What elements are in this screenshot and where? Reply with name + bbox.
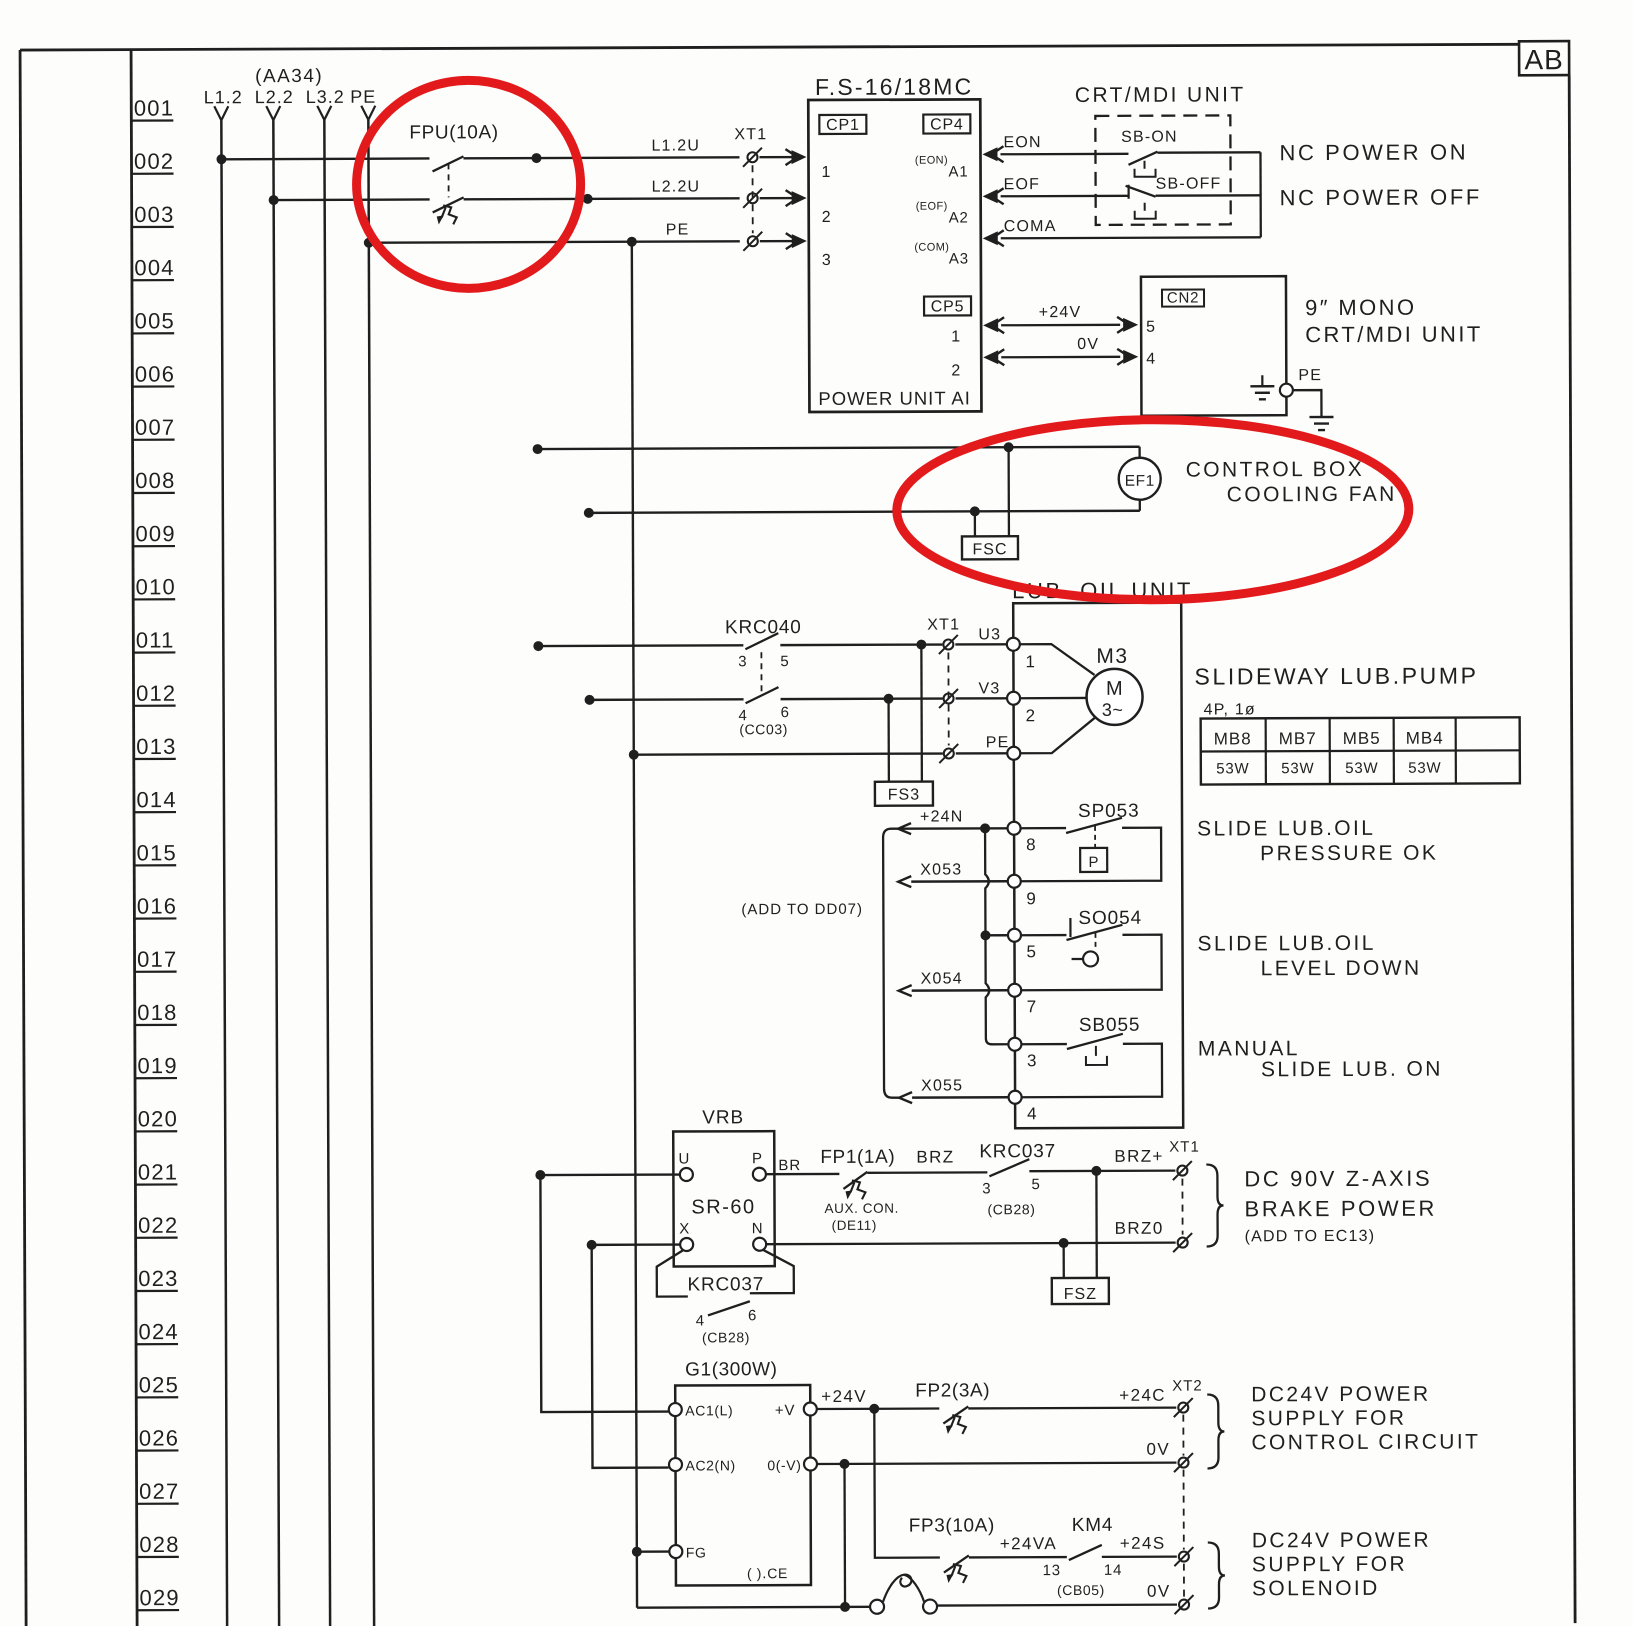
pressure switch P box [1080,848,1107,872]
svg-text:U: U [678,1150,690,1167]
svg-text:KRC040: KRC040 [725,617,802,638]
contact KM4 13-14 blade [1069,1545,1102,1560]
svg-text:3~: 3~ [1102,700,1124,720]
G1 terminal FG [669,1545,682,1558]
pressure switch SP053 dashed stem [1094,826,1096,848]
svg-text:SUPPLY FOR: SUPPLY FOR [1251,1407,1406,1431]
contact KRC037 3-5 blade (brake) [989,1159,1029,1176]
svg-text:1: 1 [822,164,832,181]
svg-text:0V: 0V [1146,1440,1170,1459]
svg-text:XT1: XT1 [734,126,767,143]
terminal XT2 0V solenoid [1179,1600,1189,1610]
svg-text:CP5: CP5 [931,298,965,315]
svg-text:(COM): (COM) [914,241,949,253]
svg-text:0V: 0V [1147,1582,1171,1601]
svg-text:SLIDEWAY LUB.PUMP: SLIDEWAY LUB.PUMP [1194,662,1478,689]
svg-text:003: 003 [134,202,174,227]
power supply G1 box [675,1385,811,1586]
svg-text:+V: +V [775,1402,795,1419]
svg-text:4: 4 [696,1312,705,1329]
terminal XT1 BRZ+ [1177,1166,1187,1176]
svg-text:BRZ0: BRZ0 [1115,1219,1164,1238]
pushbutton SB055 blade [1067,1034,1123,1049]
svg-text:028: 028 [139,1532,179,1557]
pump table box [1201,717,1520,784]
svg-text:3: 3 [1027,1051,1038,1070]
wire +24V branch down to FP3 [874,1409,940,1558]
svg-text:015: 015 [137,840,177,865]
svg-text:MANUAL: MANUAL [1198,1037,1300,1060]
fuse FS3 stub 1 [920,645,923,782]
svg-text:+24V: +24V [1039,304,1082,321]
svg-text:029: 029 [139,1585,179,1610]
svg-text:+24N: +24N [920,808,964,825]
terminal XT2 0V [1178,1458,1188,1468]
svg-text:(ADD TO EC13): (ADD TO EC13) [1245,1228,1376,1246]
svg-text:M: M [1106,678,1123,700]
wire row012 V3 left [590,698,744,701]
pressure switch SP053 blade [1066,818,1122,833]
svg-text:MB8: MB8 [1214,729,1252,748]
svg-text:2: 2 [822,209,832,226]
svg-text:(AA34): (AA34) [255,66,323,87]
svg-text:G1(300W): G1(300W) [685,1359,778,1380]
svg-text:017: 017 [137,947,177,972]
svg-text:SB055: SB055 [1079,1015,1141,1036]
svg-text:1: 1 [1025,652,1036,671]
svg-text:009: 009 [135,521,175,546]
svg-text:FSC: FSC [972,541,1007,558]
svg-text:AC2(N): AC2(N) [685,1457,735,1473]
page border top [20,44,1519,50]
svg-text:5: 5 [1026,942,1037,961]
svg-text:6: 6 [748,1307,757,1324]
brace solenoid [1208,1542,1225,1608]
svg-text:KM4: KM4 [1072,1515,1114,1536]
wire SO054 to loop right [1020,935,1161,991]
svg-text:DC24V POWER: DC24V POWER [1252,1529,1431,1553]
svg-text:(CC03): (CC03) [739,721,788,737]
noise filter bead [870,1600,884,1614]
wire X053 [898,876,911,887]
terminal XT1 dashed link (lub) [947,652,949,745]
fuse FS3 box [875,782,933,806]
terminal XT2 dashed link [1182,1415,1184,1456]
svg-text:014: 014 [136,787,176,812]
svg-text:L2.2U: L2.2U [652,178,701,195]
svg-text:SB-ON: SB-ON [1121,129,1178,146]
svg-text:004: 004 [134,255,174,280]
svg-text:024: 024 [138,1319,178,1344]
connector CP5 box [924,296,971,315]
wire bead to XT2 0V [937,1603,1177,1606]
svg-text:CRT/MDI UNIT: CRT/MDI UNIT [1305,321,1483,347]
svg-text:5: 5 [1146,319,1156,336]
fuse FP2 symbol [943,1406,968,1423]
wire pin5 to SO054 [1020,934,1066,936]
svg-text:001: 001 [134,95,174,120]
svg-text:012: 012 [136,681,176,706]
wire XT1 to lub PE pin [956,752,1008,755]
junction vertical with hops (+24N to pin3 wire) [985,828,1009,1044]
red circle highlight around FPU [356,80,581,289]
svg-text:026: 026 [139,1425,179,1450]
wire PE to chassis ground [1293,390,1321,417]
terminal XT1 PE [748,236,758,246]
breaker FPU trip symbol [442,207,446,217]
svg-text:X: X [679,1220,690,1237]
terminal XT1 dashed link [752,165,754,233]
wire L1 from bus to FPU [221,157,429,160]
svg-text:9″ MONO: 9″ MONO [1305,295,1416,320]
level switch SO054 dashed stem [1094,933,1096,950]
wire FP3 to KM4 [969,1556,1067,1559]
wire 0V branch vertical [843,1464,846,1607]
connector CP4 box [923,114,970,133]
svg-text:MB4: MB4 [1406,729,1444,748]
svg-text:+24S: +24S [1120,1534,1166,1553]
wire X055 [899,1092,912,1103]
fan EF1 leads [1138,447,1140,459]
ground symbol at CN2 PE [1261,375,1263,386]
lub pin 5 circle [1008,929,1021,942]
wire COMA from CP4 [983,231,998,245]
terminal XT1 U3 [943,639,953,649]
lub pin 2 circle [1007,692,1020,705]
svg-text:EON: EON [1003,134,1041,151]
svg-text:011: 011 [136,627,175,652]
svg-text:L1.2: L1.2 [204,87,243,107]
lub pin 1 circle [1007,638,1020,651]
bus L1.2 vertical [221,120,227,1628]
wire KM4 to +24S [1102,1555,1177,1558]
svg-text:( )․CE: ( )․CE [747,1565,788,1581]
terminal XT1 BRZ0 [1178,1238,1188,1248]
bus PE vertical [368,120,374,1628]
wire X054 [899,985,912,996]
wire SB-OFF to right loop [1156,194,1261,197]
svg-text:MB5: MB5 [1343,729,1381,748]
page border left inner (row column) [131,50,137,1629]
svg-text:3: 3 [982,1180,991,1197]
page border left outer [20,50,26,1629]
wire lub pin2 to motor [1020,697,1087,700]
svg-text:021: 021 [138,1159,178,1184]
svg-text:SUPPLY FOR: SUPPLY FOR [1252,1553,1407,1577]
motor M3 circle [1086,669,1142,725]
svg-text:L1.2U: L1.2U [651,137,700,154]
svg-text:019: 019 [137,1053,177,1078]
red ellipse highlight around cooling fan [896,419,1409,601]
svg-text:3: 3 [822,252,832,269]
svg-text:SR-60: SR-60 [691,1196,755,1218]
svg-text:013: 013 [136,734,176,759]
terminal XT1 V3 [944,693,954,703]
svg-text:(CB05): (CB05) [1057,1582,1105,1598]
wire XT1 to CP1 pin2 with arrow [760,197,804,200]
svg-text:FPU(10A): FPU(10A) [409,122,498,143]
wire row007 to fan [538,447,1140,449]
svg-text:XT1: XT1 [927,616,960,633]
svg-text:VRB: VRB [702,1107,744,1128]
svg-text:DC24V POWER: DC24V POWER [1251,1383,1430,1407]
svg-text:BR: BR [778,1157,801,1174]
svg-text:0(-V): 0(-V) [767,1457,801,1473]
brace control circuit [1207,1394,1224,1468]
svg-text:SP053: SP053 [1078,801,1140,822]
lub oil unit box [1013,603,1183,1129]
PE branch vertical [632,242,637,1608]
wire FG to PE branch [637,1550,669,1553]
svg-text:006: 006 [135,361,175,386]
contact KRC040 3-5 blade [745,633,778,649]
svg-text:PE: PE [986,734,1010,751]
svg-text:53W: 53W [1345,760,1378,777]
svg-text:KRC037: KRC037 [687,1274,764,1295]
svg-text:LEVEL DOWN: LEVEL DOWN [1261,957,1422,981]
pushbutton SB055 actuator [1086,1056,1107,1065]
G1 terminal 0(-V) [804,1458,817,1471]
wire VRB N to XT1 BRZ0 [767,1243,1176,1245]
pushbutton SB-ON blade [1128,152,1157,165]
svg-text:010: 010 [136,574,176,599]
svg-text:007: 007 [135,415,175,440]
svg-text:BRZ+: BRZ+ [1114,1147,1164,1166]
svg-text:2: 2 [1026,706,1037,725]
svg-text:CP4: CP4 [930,116,964,133]
wire SB055 to loop right [1021,1044,1162,1098]
lub pin 8 circle [1008,822,1021,835]
svg-text:AC1(L): AC1(L) [685,1402,733,1418]
connector CN2 box [1162,290,1204,307]
wire FP2 to +24C [968,1406,1176,1409]
wire lub PE to motor [1020,718,1095,753]
pump table row divider [1201,750,1520,751]
svg-text:13: 13 [1043,1562,1061,1579]
svg-text:016: 016 [137,893,177,918]
fuse FP1 symbol [843,1172,867,1189]
bus entry arrow at x=327 [317,106,324,120]
G1 terminal AC1(L) [669,1403,682,1416]
G1 terminal +V [804,1403,817,1416]
G1 terminal AC2(N) [669,1458,682,1471]
svg-text:FP2(3A): FP2(3A) [915,1380,990,1401]
svg-text:(DE11): (DE11) [832,1218,877,1233]
connector CP1 box [819,115,866,134]
power unit AI box [808,99,981,412]
pushbutton SB-OFF actuator [1135,211,1156,219]
wire right loop vertical [1259,152,1262,237]
chassis ground symbol [1309,416,1333,418]
svg-text:PE: PE [666,221,690,238]
wire XT1 to CP1 pin3 with arrow [760,240,804,243]
wire SB-ON to right loop [1157,151,1260,154]
wire +24V CP5 to CN2 [983,318,998,332]
svg-text:025: 025 [139,1372,179,1397]
contact KRC040 link dashed [760,652,762,692]
svg-text:SB-OFF: SB-OFF [1156,175,1222,192]
svg-text:COOLING FAN: COOLING FAN [1227,483,1397,507]
svg-text:NC POWER OFF: NC POWER OFF [1280,184,1482,210]
pushbutton SB-ON actuator [1135,169,1156,177]
wire L1.2U FPU to XT1 [463,157,739,158]
svg-text:MB7: MB7 [1279,729,1317,748]
terminal XT1 L1 [747,152,757,162]
svg-text:4P, 1ø: 4P, 1ø [1204,701,1256,718]
wire XT1 to lub pin1 [955,643,1007,646]
svg-text:5: 5 [1031,1176,1040,1193]
terminal PE circle on CN2 [1280,384,1293,397]
wire lub pin1 to motor [1019,644,1094,675]
svg-text:9: 9 [1026,889,1037,908]
svg-text:SLIDE LUB.OIL: SLIDE LUB.OIL [1197,932,1375,956]
bus entry arrow at x=224 [214,106,221,120]
svg-text:AB: AB [1524,44,1563,75]
level switch SO054 blade [1066,925,1122,940]
svg-text:CP1: CP1 [826,117,860,134]
dashed box CRT/MDI UNIT (operator panel) [1095,115,1230,225]
svg-text:SLIDE LUB. ON: SLIDE LUB. ON [1261,1058,1443,1082]
wire PE to XT1 [369,241,740,242]
svg-text:X053: X053 [920,861,962,878]
svg-text:A3: A3 [949,250,969,267]
pushbutton SB-OFF NC tick [1127,185,1129,199]
svg-text:BRAKE POWER: BRAKE POWER [1244,1196,1437,1222]
wire BRZ [867,1171,987,1174]
svg-text:0V: 0V [1077,336,1099,353]
wire pin5 link [985,934,1008,936]
rectifier VRB box [673,1131,775,1266]
CN2 unit box (9 inch mono CRT) [1141,276,1287,416]
svg-text:P: P [752,1150,763,1167]
surge absorber FSZ box [1052,1278,1109,1304]
svg-text:L2.2: L2.2 [255,87,294,107]
wire bus to VRB X [592,1243,680,1246]
svg-text:N: N [752,1220,764,1237]
page border right [1569,75,1575,1623]
svg-text:SOLENOID: SOLENOID [1252,1577,1380,1600]
svg-text:53W: 53W [1216,760,1249,777]
svg-text:6: 6 [781,704,790,721]
wire XT1 to lub pin2 [956,697,1008,700]
svg-text:CRT/MDI UNIT: CRT/MDI UNIT [1075,83,1246,107]
svg-text:L3.2: L3.2 [306,87,345,107]
svg-text:53W: 53W [1281,760,1314,777]
svg-text:(CB28): (CB28) [987,1201,1035,1217]
svg-text:F.S-16/18MC: F.S-16/18MC [815,73,974,100]
wire EON from CP4 [982,147,997,161]
svg-text:002: 002 [134,149,174,174]
svg-text:14: 14 [1104,1562,1122,1579]
svg-text:+24VA: +24VA [1000,1534,1057,1553]
svg-text:FG: FG [686,1544,707,1560]
bus entry arrow at x=276 [266,106,273,120]
svg-text:EF1: EF1 [1125,473,1155,490]
pushbutton SB-OFF blade [1126,186,1156,197]
svg-text:027: 027 [139,1479,179,1504]
contact KRC037 4-6 blade (coil) [708,1301,750,1315]
bus L2.2 vertical [273,120,279,1628]
svg-text:FP3(10A): FP3(10A) [909,1515,995,1536]
wire row011 U3 left [538,644,743,647]
wire pin3 to SB055 [1021,1043,1067,1045]
lub pin 4 circle [1009,1091,1022,1104]
svg-text:POWER UNIT AI: POWER UNIT AI [818,387,971,409]
svg-text:XT1: XT1 [1169,1139,1200,1156]
svg-text:1: 1 [951,328,961,345]
svg-text:AUX. CON.: AUX. CON. [824,1201,898,1216]
terminal XT1 dashed link (brake) [1181,1179,1183,1235]
wire 0V G1 to XT2 [817,1463,1176,1464]
fuse FS3 stub 2 [887,699,890,782]
svg-text:A1: A1 [949,163,969,180]
svg-text:SLIDE LUB.OIL: SLIDE LUB.OIL [1197,817,1375,841]
terminal XT2 +24C [1178,1403,1188,1413]
breaker FPU link dashed [448,163,450,197]
terminal XT1 PE (lub) [944,748,954,758]
svg-text:V3: V3 [978,680,1000,697]
svg-text:FS3: FS3 [888,787,920,804]
svg-text:U3: U3 [978,626,1001,643]
svg-text:+24V: +24V [821,1387,867,1406]
surge absorber FSC stub 2 [974,511,976,536]
fan motor EF1 circle [1119,458,1161,500]
level switch float symbol [1072,958,1084,960]
brace DC90V [1206,1164,1223,1246]
wire SP053 to loop right [1020,828,1161,882]
svg-text:NC POWER ON: NC POWER ON [1279,139,1468,165]
svg-text:018: 018 [137,1000,177,1025]
sheet label AB box [1519,41,1569,75]
svg-text:8: 8 [1026,835,1037,854]
lub pin 7 circle [1008,984,1021,997]
svg-text:020: 020 [138,1106,178,1131]
terminal XT1 L2 [748,193,758,203]
fuse FP3 symbol [944,1555,969,1572]
surge absorber FSC box [962,536,1018,559]
wire L2 from bus to FPU [274,198,430,201]
wire L2.2U FPU to XT1 [464,198,740,199]
svg-text:FP1(1A): FP1(1A) [820,1147,895,1168]
svg-text:(CB28): (CB28) [702,1329,750,1345]
svg-text:005: 005 [135,308,175,333]
svg-text:X055: X055 [921,1077,963,1094]
breaker FPU pole 2 blade [433,197,464,212]
lub pin 3 circle [1008,1038,1021,1051]
wire bus to AC2 [592,1245,669,1468]
svg-text:(ADD TO DD07): (ADD TO DD07) [741,901,863,918]
svg-text:008: 008 [135,468,175,493]
wire +V to +24V node [817,1407,939,1410]
svg-text:KRC037: KRC037 [979,1141,1056,1162]
svg-text:XT2: XT2 [1172,1378,1203,1395]
bus entry arrow at x=371 [361,106,368,120]
level switch SO054 NC tick [1069,918,1071,937]
pump table column dividers [1265,718,1267,784]
svg-text:PE: PE [1298,367,1322,384]
svg-text:2: 2 [951,362,961,379]
wire U3 to XT1 [780,643,942,646]
svg-text:P: P [1088,854,1099,871]
wire pin8 to SP053 [1020,827,1066,829]
svg-text:SO054: SO054 [1078,908,1142,929]
brake coil contact KRC037 4-6 annotation [657,1250,688,1296]
wire FG/PE to bead [637,1606,870,1609]
contact KRC040 4-6 blade [746,687,779,703]
svg-text:EOF: EOF [1004,176,1041,193]
wire V3 to XT1 [781,697,943,700]
svg-text:4: 4 [1146,351,1156,368]
